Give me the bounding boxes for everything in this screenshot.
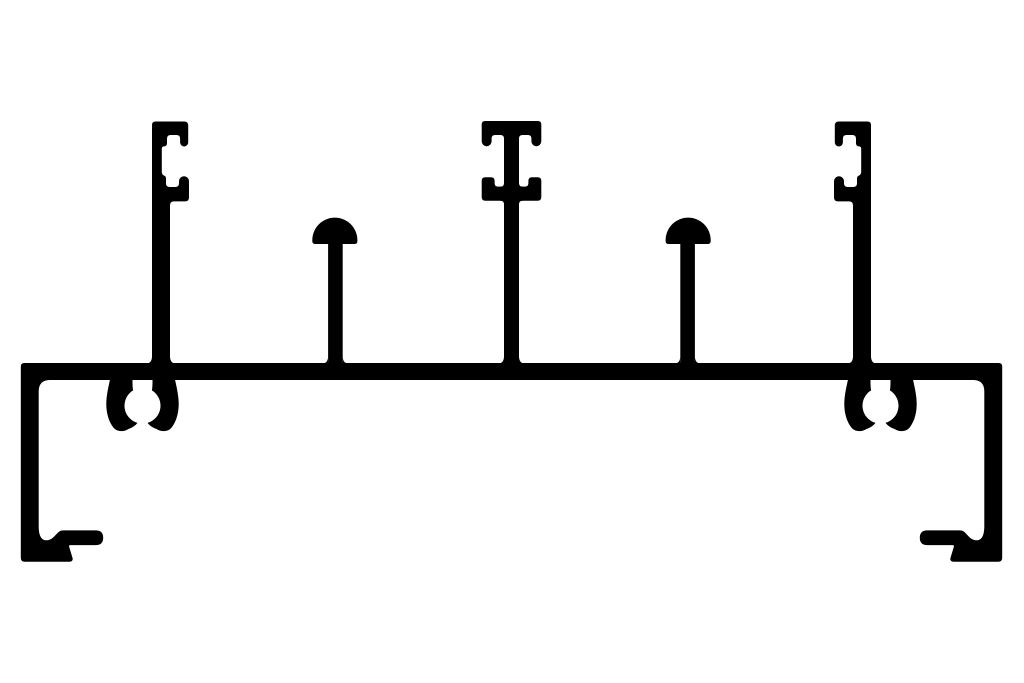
fillet: mushroom stem to bar left	[322, 357, 328, 364]
right claw	[148, 379, 179, 431]
fillet: left snap stem to bar, left side	[146, 357, 152, 364]
frame left half: top bar, left wall, bottom lip and flange	[21, 363, 513, 562]
mushroom pin at x~335	[312, 218, 357, 372]
left snap-fit element (C-slot) on stem x152-170	[152, 122, 189, 373]
fillet: mushroom stem to bar right	[343, 357, 349, 364]
fillet: left snap stem to bar, right side	[170, 357, 176, 364]
center crossbar mid fill	[500, 187, 513, 201]
left claw	[106, 379, 137, 431]
fillet: center stem to bar left	[498, 357, 504, 364]
center cap mid fill	[500, 121, 513, 135]
center double-T element, left half (mirrored to full)	[482, 121, 513, 372]
